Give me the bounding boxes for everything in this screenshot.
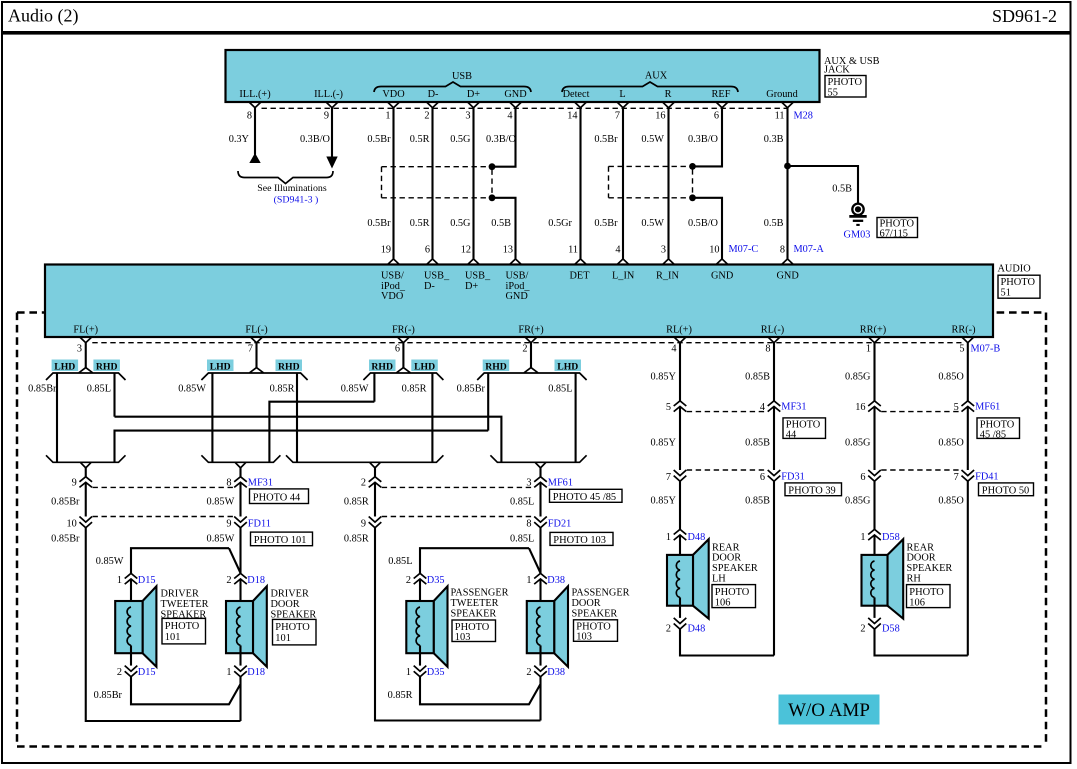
svg-text:D58: D58 <box>882 532 900 543</box>
svg-text:USB: USB <box>452 71 472 82</box>
svg-text:SD961-2: SD961-2 <box>992 6 1057 26</box>
USB shield dashed box <box>382 167 493 198</box>
wire FD11-10 return down 0.85Br <box>86 528 241 721</box>
svg-text:D15: D15 <box>138 667 156 678</box>
wire D35 speaker to pin 1 <box>419 653 421 665</box>
wire RL(+) 0.85Y <box>679 343 681 401</box>
svg-text:0.85Br: 0.85Br <box>457 384 486 395</box>
svg-text:D+: D+ <box>467 89 480 100</box>
svg-text:4: 4 <box>615 245 620 256</box>
crossover wire H3 (FR+ RHD to merge MF31-9) <box>115 431 489 463</box>
svg-text:RR(+): RR(+) <box>860 325 886 336</box>
svg-text:1: 1 <box>860 532 865 543</box>
svg-text:M07-B: M07-B <box>971 344 1001 355</box>
svg-text:RH: RH <box>907 574 922 585</box>
svg-text:DOOR: DOOR <box>572 598 601 609</box>
M28 pin labels <box>239 89 798 100</box>
wire D48 speaker to pin 2 <box>679 606 681 618</box>
connector D15 pin 1 chevrons <box>125 573 138 584</box>
svg-text:0.5W: 0.5W <box>641 134 664 145</box>
wire FR+ LHD 0.85L branch <box>575 373 577 462</box>
svg-text:M07-A: M07-A <box>794 244 825 255</box>
connector MF61 pin 5 chevrons <box>962 401 975 412</box>
wire AUX REF 0.3B/O with shield connection <box>693 108 723 259</box>
LHD tag (FR- right branch) <box>411 360 438 373</box>
svg-text:PHOTO: PHOTO <box>165 621 200 632</box>
svg-text:L: L <box>619 89 625 100</box>
svg-text:D18: D18 <box>247 667 265 678</box>
RHD tag (FR+ left branch) <box>483 360 510 373</box>
svg-text:11: 11 <box>568 245 578 256</box>
PHOTO 45 /85 box (MF61) <box>550 489 623 503</box>
svg-text:19: 19 <box>381 245 391 256</box>
svg-text:D-: D- <box>424 281 435 292</box>
svg-text:GND: GND <box>504 89 527 100</box>
svg-text:0.3B/O: 0.3B/O <box>486 134 517 145</box>
svg-text:M28: M28 <box>794 111 813 122</box>
svg-text:0.3B/O: 0.3B/O <box>688 134 719 145</box>
wire RR(+) MF to FD <box>873 407 875 471</box>
svg-text:103: 103 <box>576 632 592 643</box>
FR(-) RHD/LHD split bar <box>363 368 443 380</box>
svg-text:0.85O: 0.85O <box>938 438 964 449</box>
svg-text:DOOR: DOOR <box>712 553 741 564</box>
svg-text:RL(-): RL(-) <box>761 325 784 336</box>
svg-text:10: 10 <box>67 519 77 530</box>
svg-text:0.5B: 0.5B <box>764 218 784 229</box>
connector FD21 pin 9 chevrons <box>369 517 382 528</box>
wire FR- LHD 0.85R branch <box>431 373 433 462</box>
connector MF61 pin 3 chevrons <box>534 477 547 488</box>
svg-text:D18: D18 <box>247 575 265 586</box>
svg-text:JACK: JACK <box>824 65 850 76</box>
wire FL(+) pin stub <box>85 343 87 369</box>
svg-text:0.85Br: 0.85Br <box>94 690 123 701</box>
PHOTO 55 box <box>825 76 866 99</box>
rear wire labels row 2 <box>651 438 965 449</box>
svg-text:LHD: LHD <box>54 361 75 372</box>
RHD tag (FL- right branch) <box>276 360 303 373</box>
svg-text:LH: LH <box>712 574 726 585</box>
svg-text:67/115: 67/115 <box>880 229 908 240</box>
W/O AMP label box <box>779 695 880 725</box>
wire RL(+) FD to D48 <box>679 481 681 529</box>
FD row pin numbers <box>67 519 532 530</box>
svg-text:DOOR: DOOR <box>907 553 936 564</box>
svg-text:5: 5 <box>666 402 671 413</box>
svg-text:45 /85: 45 /85 <box>980 430 1006 441</box>
PHOTO 101 box (FD11) <box>251 532 313 546</box>
rear MF row pin numbers <box>666 402 959 413</box>
speaker D35 PASSENGER TWEETER <box>406 586 447 667</box>
svg-text:0.5Br: 0.5Br <box>367 134 391 145</box>
svg-text:AUDIO: AUDIO <box>998 264 1032 275</box>
DRIVER TWEETER SPEAKER caption <box>161 589 209 621</box>
PHOTO 44 box (MF31 rear) <box>783 418 826 441</box>
svg-text:3: 3 <box>526 478 531 489</box>
svg-text:RR(-): RR(-) <box>951 325 975 336</box>
wire FD21-9 return down 0.85R <box>375 528 541 721</box>
svg-text:4: 4 <box>760 402 765 413</box>
wire label row 1 (M28 side) <box>229 134 784 145</box>
wire USB D- 0.5R <box>431 108 433 259</box>
wire FL- LHD 0.85W branch <box>211 373 213 462</box>
FD21 dashed connector row <box>382 516 534 518</box>
svg-text:PASSENGER: PASSENGER <box>572 588 630 599</box>
PHOTO 45/85 box (MF61 rear) <box>977 418 1020 441</box>
wire merge out to MF31-8 <box>239 468 241 477</box>
audio unit input pin labels <box>381 271 799 302</box>
DRIVER DOOR SPEAKER caption <box>271 589 317 621</box>
speaker D38 PASSENGER DOOR <box>527 586 568 667</box>
PHOTO 39 box (FD31) <box>785 483 842 496</box>
svg-text:0.85R: 0.85R <box>388 690 413 701</box>
See Illuminations underbrace <box>238 171 333 206</box>
AUDIO unit block <box>45 265 993 338</box>
connector block M28 AUX & USB JACK <box>226 50 820 102</box>
wire FL- RHD 0.85R branch <box>296 373 298 462</box>
svg-text:0.85W: 0.85W <box>178 384 206 395</box>
speaker D15 DRIVER TWEETER <box>115 586 156 667</box>
svg-text:PHOTO 44: PHOTO 44 <box>253 492 301 503</box>
svg-text:VDO: VDO <box>381 291 404 302</box>
svg-text:PHOTO: PHOTO <box>828 77 863 88</box>
crossover wire H2 (FL+ RHD to merge MF61-3) <box>115 417 502 463</box>
wire D18 speaker to pin 1 <box>239 653 241 665</box>
svg-text:1: 1 <box>385 111 390 122</box>
wire D38 speaker to pin 2 <box>539 653 541 665</box>
svg-text:GND: GND <box>711 271 734 282</box>
svg-text:9: 9 <box>72 478 77 489</box>
svg-text:SPEAKER: SPEAKER <box>907 563 953 574</box>
svg-text:6: 6 <box>860 472 865 483</box>
audio unit bottom dashed row <box>92 342 961 344</box>
svg-text:2: 2 <box>860 624 865 635</box>
wire USB VDO 0.5Br <box>392 108 394 259</box>
svg-text:2: 2 <box>522 344 527 355</box>
wire D58-2 return loop <box>875 629 968 655</box>
speaker D48 REAR DOOR LH <box>667 539 709 619</box>
svg-text:SPEAKER: SPEAKER <box>451 608 497 619</box>
svg-text:FD21: FD21 <box>548 518 571 529</box>
svg-text:D38: D38 <box>547 575 565 586</box>
audio unit output pin labels <box>73 325 975 336</box>
svg-text:D15: D15 <box>138 575 156 586</box>
wire ILL.(+) 0.3Y with off-sheet triangle <box>249 108 260 163</box>
svg-text:Detect: Detect <box>563 89 590 100</box>
svg-text:6: 6 <box>714 111 719 122</box>
svg-text:D48: D48 <box>688 532 706 543</box>
svg-text:12: 12 <box>461 245 471 256</box>
svg-text:DOOR: DOOR <box>271 599 300 610</box>
wire D18-1 down to return <box>239 677 241 721</box>
svg-text:103: 103 <box>455 632 471 643</box>
svg-text:9: 9 <box>361 519 366 530</box>
svg-text:GM03: GM03 <box>844 230 871 241</box>
connector FD21 pin 8 chevrons <box>534 517 547 528</box>
MF61 rear dashed row <box>881 411 961 413</box>
svg-text:(SD941-3 ): (SD941-3 ) <box>274 195 319 206</box>
PHOTO 50 box (FD41) <box>979 483 1034 496</box>
AUX shield dashed box <box>609 166 693 197</box>
svg-text:M07-C: M07-C <box>729 244 759 255</box>
wire AUX Detect 0.5Br/0.5Gr <box>579 108 581 259</box>
svg-text:7: 7 <box>615 111 620 122</box>
svg-text:RHD: RHD <box>371 361 393 372</box>
svg-text:PHOTO 50: PHOTO 50 <box>982 485 1029 496</box>
connector MF31 pin 4 chevrons <box>768 401 781 412</box>
svg-text:16: 16 <box>655 111 665 122</box>
connector FD41 pin 7 chevrons <box>962 470 975 481</box>
svg-text:FD31: FD31 <box>781 472 804 483</box>
svg-text:0.85L: 0.85L <box>87 384 111 395</box>
USB group overbrace <box>374 71 531 92</box>
merge bar into MF31 pin 8 <box>201 455 280 468</box>
LHD tag (FR+ right branch) <box>555 360 582 373</box>
svg-text:L_IN: L_IN <box>612 271 635 282</box>
merge bar into MF61 pin 3 <box>490 455 586 468</box>
wire USB GND 0.3B/0.5B with shield connection <box>492 108 516 259</box>
rear wire labels row 3 <box>651 496 965 507</box>
RHD tag (FL+ right branch) <box>93 360 120 373</box>
PHOTO 44 box (MF31) <box>250 489 309 504</box>
svg-text:PHOTO: PHOTO <box>1001 277 1036 288</box>
svg-text:R: R <box>665 89 672 100</box>
svg-text:0.85R: 0.85R <box>344 533 369 544</box>
svg-text:2: 2 <box>117 667 122 678</box>
branch wire labels <box>28 384 572 395</box>
wire ground branch 0.5B to GM03 <box>788 166 859 203</box>
wire USB D+ 0.5G <box>472 108 474 259</box>
svg-text:0.3B/O: 0.3B/O <box>300 134 331 145</box>
wire ILL.(-) 0.3B/O with down arrow <box>326 108 337 169</box>
svg-text:0.85Br: 0.85Br <box>51 497 80 508</box>
svg-text:2: 2 <box>406 575 411 586</box>
svg-text:MF31: MF31 <box>781 402 806 413</box>
svg-text:9: 9 <box>324 111 329 122</box>
svg-text:D+: D+ <box>465 281 478 292</box>
svg-text:55: 55 <box>828 88 838 99</box>
svg-text:W/O AMP: W/O AMP <box>788 700 870 721</box>
wire RR(-) 0.85O <box>967 343 969 401</box>
wire D58-1 to speaker <box>873 535 875 561</box>
svg-text:SPEAKER: SPEAKER <box>712 563 758 574</box>
svg-text:1: 1 <box>406 667 411 678</box>
FD41 dashed row <box>881 469 961 471</box>
svg-text:5: 5 <box>959 344 964 355</box>
M28 pin numbers <box>247 111 785 122</box>
wire merge out to MF61-3 <box>539 468 541 477</box>
svg-text:10: 10 <box>709 245 719 256</box>
svg-text:0.5R: 0.5R <box>410 218 430 229</box>
connector D38 pin 1 chevrons <box>534 573 547 584</box>
svg-text:D58: D58 <box>882 624 900 635</box>
PHOTO 103 box (FD21) <box>550 532 613 546</box>
svg-text:1: 1 <box>117 575 122 586</box>
rear wire labels row 1 <box>651 372 965 383</box>
svg-text:D35: D35 <box>427 575 445 586</box>
svg-text:AUX: AUX <box>645 71 668 82</box>
connector MF31 pin 8 chevrons <box>234 477 247 488</box>
svg-text:2: 2 <box>526 667 531 678</box>
svg-text:FD11: FD11 <box>248 518 271 529</box>
RHD tag (FR- left branch) <box>369 360 396 373</box>
wire label row 2 (audio unit side) <box>367 218 783 229</box>
wire AUX L 0.5R/0.5Br <box>622 108 624 259</box>
svg-text:1: 1 <box>226 667 231 678</box>
wire FD11-9 down to D18-2 0.85W <box>239 528 241 574</box>
FL(+) LHD/RHD split bar <box>46 368 126 380</box>
AUX group overbrace <box>562 71 738 93</box>
wire merge out to MF31-9 <box>85 468 87 477</box>
AUX & USB JACK caption <box>824 56 880 76</box>
svg-text:0.85G: 0.85G <box>845 496 871 507</box>
svg-text:RHD: RHD <box>278 361 300 372</box>
svg-text:0.85R: 0.85R <box>344 497 369 508</box>
svg-text:1: 1 <box>526 575 531 586</box>
svg-text:3: 3 <box>465 111 470 122</box>
wire FL+ RHD 0.85L branch to H2 <box>113 373 115 417</box>
audio unit bottom pin terminals <box>80 337 974 343</box>
audio unit top pin terminals <box>388 259 794 265</box>
svg-text:PHOTO: PHOTO <box>715 587 750 598</box>
svg-text:3: 3 <box>77 344 82 355</box>
speaker D58 REAR DOOR RH <box>862 539 904 619</box>
svg-text:8: 8 <box>765 344 770 355</box>
wire MF61-3 to FD21-8 0.85L <box>539 482 541 516</box>
wire RR(+) 0.85G <box>873 343 875 401</box>
svg-text:44: 44 <box>786 430 797 441</box>
wire D15-2 link to D18-1 0.85Br <box>131 677 241 705</box>
svg-text:0.85B: 0.85B <box>745 372 770 383</box>
M28 pin terminals (V symbols) <box>249 102 794 108</box>
FR(+) RHD/LHD split bar <box>477 368 586 380</box>
svg-text:4: 4 <box>671 344 676 355</box>
wire D38-1 to speaker <box>539 579 541 607</box>
wire branch to D35-2 0.85L <box>420 548 541 573</box>
connector FD31 pin 7 chevrons <box>674 470 687 481</box>
wire FR+ RHD 0.85Br branch to H3 <box>487 373 489 431</box>
svg-text:0.85O: 0.85O <box>938 372 964 383</box>
svg-text:Ground: Ground <box>766 89 798 100</box>
wire RL(-) MF to FD <box>773 407 775 471</box>
svg-text:DRIVER: DRIVER <box>161 589 199 600</box>
connector MF31 pin 5 chevrons <box>674 401 687 412</box>
svg-text:6: 6 <box>425 245 430 256</box>
svg-text:PHOTO: PHOTO <box>909 587 944 598</box>
svg-text:D48: D48 <box>688 624 706 635</box>
svg-text:D38: D38 <box>547 667 565 678</box>
wire RL(-) 0.85B <box>773 343 775 401</box>
svg-text:9: 9 <box>226 519 231 530</box>
PASSENGER TWEETER SPEAKER caption <box>451 588 509 620</box>
connector MF61 pin 2 chevrons <box>369 477 382 488</box>
connector FD31 pin 6 chevrons <box>768 470 781 481</box>
svg-text:DET: DET <box>570 271 591 282</box>
svg-text:MF31: MF31 <box>248 478 273 489</box>
PHOTO 51 box <box>998 275 1040 298</box>
wire RR(+) FD to D58 <box>873 481 875 529</box>
shield junction dot <box>489 163 496 170</box>
wire D58 speaker to pin 2 <box>873 606 875 618</box>
svg-text:8: 8 <box>247 111 252 122</box>
wire D48-1 to speaker <box>679 535 681 561</box>
svg-text:D-: D- <box>428 89 439 100</box>
svg-text:0.5G: 0.5G <box>450 134 471 145</box>
shield junction dot <box>689 163 696 170</box>
crossover wire H1 (FR- RHD to merge MF31-8) <box>269 402 374 463</box>
svg-text:REF: REF <box>712 89 731 100</box>
W/O AMP dashed enclosure box <box>17 313 1046 747</box>
connector D18 pin 2 chevrons <box>234 573 247 584</box>
svg-text:2: 2 <box>666 624 671 635</box>
svg-text:0.5B: 0.5B <box>832 184 852 195</box>
svg-text:13: 13 <box>503 245 513 256</box>
wire RL(-) FD31-6 down to return <box>773 481 775 655</box>
connector FD11 pin 9 chevrons <box>234 517 247 528</box>
svg-text:0.85O: 0.85O <box>938 496 964 507</box>
MF31 rear dashed row <box>687 411 768 413</box>
wire FR(-) pin stub <box>402 343 404 369</box>
wire AUX R 0.5G/0.5W <box>667 108 669 259</box>
svg-text:0.5R: 0.5R <box>410 134 430 145</box>
svg-text:0.5Br: 0.5Br <box>367 218 391 229</box>
merge bar into MF61 pin 2 <box>286 455 443 468</box>
wire D35-1 link to D38-2 0.85R <box>420 677 541 705</box>
svg-text:0.85Y: 0.85Y <box>651 496 677 507</box>
svg-text:RHD: RHD <box>96 361 118 372</box>
svg-text:0.85W: 0.85W <box>207 533 235 544</box>
audio unit top pin numbers <box>381 245 785 256</box>
connector D18 pin 1 chevrons <box>234 666 247 677</box>
svg-text:TWEETER: TWEETER <box>451 598 499 609</box>
connector MF31 pin 9 chevrons <box>79 477 92 488</box>
wire FL(-) pin stub <box>255 343 257 369</box>
svg-text:0.85W: 0.85W <box>341 384 369 395</box>
wire D35-2 to speaker <box>419 579 421 607</box>
wire FL+ LHD 0.85Br branch <box>56 373 58 462</box>
wire FD21-8 down to D38-1 0.85L <box>539 528 541 574</box>
svg-text:FD41: FD41 <box>975 472 998 483</box>
svg-text:SPEAKER: SPEAKER <box>572 608 618 619</box>
svg-text:2: 2 <box>226 575 231 586</box>
svg-text:0.85B: 0.85B <box>745 438 770 449</box>
svg-text:6: 6 <box>395 344 400 355</box>
svg-text:TWEETER: TWEETER <box>161 599 209 610</box>
ground branch junction dot <box>784 163 791 170</box>
svg-text:Audio (2): Audio (2) <box>8 6 79 27</box>
svg-text:FL(-): FL(-) <box>245 325 267 336</box>
svg-text:106: 106 <box>909 597 925 608</box>
svg-text:0.5G: 0.5G <box>450 218 471 229</box>
M28 connector dashed row <box>262 107 788 109</box>
svg-text:0.85G: 0.85G <box>845 438 871 449</box>
svg-text:0.85Br: 0.85Br <box>28 384 57 395</box>
svg-text:0.85W: 0.85W <box>96 556 124 567</box>
svg-text:LHD: LHD <box>557 361 578 372</box>
svg-text:MF61: MF61 <box>548 478 573 489</box>
svg-text:2: 2 <box>424 111 429 122</box>
svg-text:FR(-): FR(-) <box>392 325 415 336</box>
svg-text:LHD: LHD <box>210 361 231 372</box>
svg-text:101: 101 <box>165 632 181 643</box>
svg-text:R_IN: R_IN <box>656 271 679 282</box>
svg-text:FL(+): FL(+) <box>73 325 98 336</box>
ground GM03 symbol <box>844 204 871 241</box>
lower wire labels row (FD out) <box>51 533 534 544</box>
svg-text:1: 1 <box>666 532 671 543</box>
LHD tag (FL- left branch) <box>207 360 234 373</box>
